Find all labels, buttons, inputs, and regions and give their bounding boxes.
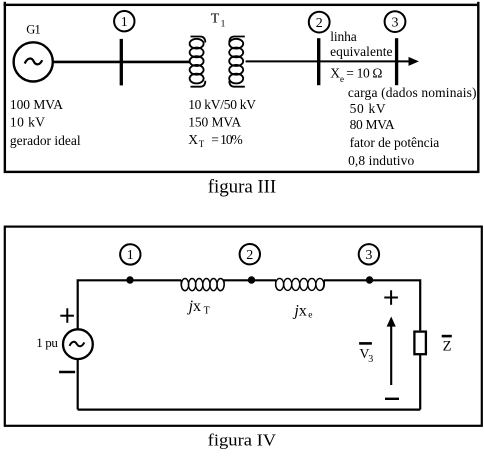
node 3 circled xyxy=(359,244,379,264)
svg-text:1: 1 xyxy=(127,248,134,263)
svg-text:jx: jx xyxy=(292,303,306,320)
frame corner tick top-right xyxy=(477,2,479,7)
bottom wire xyxy=(78,409,421,411)
svg-text:equivalente: equivalente xyxy=(330,44,392,59)
svg-text:3: 3 xyxy=(365,248,372,263)
svg-text:carga (dados nominais): carga (dados nominais) xyxy=(348,85,477,100)
svg-text:X: X xyxy=(188,132,198,147)
arrowhead line end xyxy=(409,57,419,66)
node 2 circled xyxy=(240,244,260,264)
svg-text:2: 2 xyxy=(246,248,253,263)
svg-text:2: 2 xyxy=(316,16,323,31)
svg-text:50 kV: 50 kV xyxy=(350,101,386,116)
wire source bottom xyxy=(77,359,79,410)
label Z bar xyxy=(442,336,452,354)
svg-text:figura III: figura III xyxy=(208,176,276,197)
label Xe = 10 ohm xyxy=(330,65,382,84)
svg-text:fator de potência: fator de potência xyxy=(350,135,440,150)
node 2 dot xyxy=(248,276,255,283)
svg-text:T: T xyxy=(204,306,210,317)
svg-text:1 pu: 1 pu xyxy=(36,335,58,350)
label T1 xyxy=(211,12,226,30)
label XT = 10% xyxy=(188,132,243,149)
wire jxT to node 2 xyxy=(223,279,276,281)
svg-text:100 MVA: 100 MVA xyxy=(10,97,63,112)
node 1 dot xyxy=(126,276,133,283)
svg-text:= 10%: = 10% xyxy=(211,132,243,147)
label V3 bar xyxy=(359,343,373,364)
svg-text:10 kV/50 kV: 10 kV/50 kV xyxy=(188,97,256,112)
wire source top to node 1 xyxy=(78,280,182,329)
svg-text:0,8 indutivo: 0,8 indutivo xyxy=(348,153,414,168)
generator G1 symbol xyxy=(14,42,53,81)
node 2 circled xyxy=(309,12,330,33)
svg-text:T: T xyxy=(199,139,205,149)
label jxe xyxy=(292,303,312,321)
svg-text:1: 1 xyxy=(121,15,128,30)
svg-text:3: 3 xyxy=(392,15,399,30)
svg-text:e: e xyxy=(308,311,312,321)
wire jxe to corner to load xyxy=(324,280,420,330)
node 3 dot xyxy=(366,276,373,283)
node 1 circled xyxy=(114,11,134,31)
bus 3 xyxy=(395,38,398,85)
frame corner tick top-left xyxy=(4,2,6,7)
svg-text:linha: linha xyxy=(330,29,356,44)
wire load to bottom xyxy=(419,354,421,409)
svg-text:G1: G1 xyxy=(26,23,40,37)
inductor jxe xyxy=(276,278,325,290)
figure III frame xyxy=(5,5,478,172)
voltage source 1 pu xyxy=(63,329,93,359)
svg-text:150 MVA: 150 MVA xyxy=(188,115,241,130)
svg-text:X: X xyxy=(330,65,340,80)
svg-text:figura IV: figura IV xyxy=(208,431,277,450)
svg-text:Z: Z xyxy=(443,339,452,355)
svg-text:1: 1 xyxy=(221,20,226,30)
svg-text:= 10 Ω: = 10 Ω xyxy=(346,65,382,80)
svg-text:80 MVA: 80 MVA xyxy=(350,117,395,132)
svg-text:gerador ideal: gerador ideal xyxy=(10,133,81,148)
node 1 circled xyxy=(120,244,140,264)
V3 arrow xyxy=(387,317,396,386)
node 3 circled xyxy=(385,11,406,32)
inductor jxT xyxy=(181,279,224,291)
svg-text:T: T xyxy=(211,12,220,27)
svg-text:jx: jx xyxy=(187,298,201,315)
transformer T1 secondary winding xyxy=(229,37,245,87)
bus 1 xyxy=(120,39,123,86)
svg-text:10 kV: 10 kV xyxy=(10,115,45,130)
svg-text:e: e xyxy=(340,74,344,84)
wire transformer to arrow xyxy=(246,60,410,62)
minus sign source xyxy=(59,371,75,373)
wire generator to transformer xyxy=(53,61,190,64)
minus sign load xyxy=(385,398,399,400)
bus 2 xyxy=(317,38,320,85)
svg-text:3: 3 xyxy=(368,354,373,365)
plus sign source xyxy=(60,308,74,323)
transformer T1 primary winding xyxy=(190,37,206,87)
figure IV frame xyxy=(5,227,482,426)
load impedance Z rect xyxy=(414,332,426,355)
label jxT xyxy=(187,298,210,317)
plus sign load xyxy=(384,290,398,305)
